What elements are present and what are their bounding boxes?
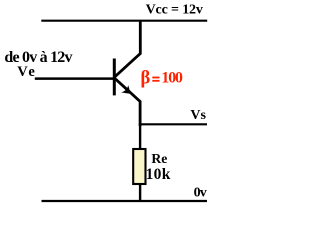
transistor Q1 emitter arrow [121,85,131,94]
svg-text:0v: 0v [194,185,207,200]
wire: Vs output from emitter node [139,123,207,125]
svg-text:Re: Re [151,151,167,166]
wire: 0v bottom rail [42,200,208,202]
wire: base lead Ve [35,77,114,80]
svg-text:100: 100 [161,70,183,87]
wire: collector from rail to transistor [115,20,141,77]
wire: Vcc top rail [41,20,207,22]
wire: resistor to ground rail [139,184,141,201]
svg-text:Vs: Vs [190,108,206,123]
transistor Q1 base bar [113,59,116,96]
svg-text:de 0v à 12v: de 0v à 12v [4,49,72,66]
svg-text:Vcc = 12v: Vcc = 12v [146,3,203,18]
transistor Q1 emitter [115,78,140,126]
wire: emitter vertical to resistor [139,124,141,150]
svg-text:β: β [141,69,151,89]
svg-text:10k: 10k [146,166,171,183]
resistor Re [133,149,145,184]
svg-text:Ve: Ve [17,64,35,80]
